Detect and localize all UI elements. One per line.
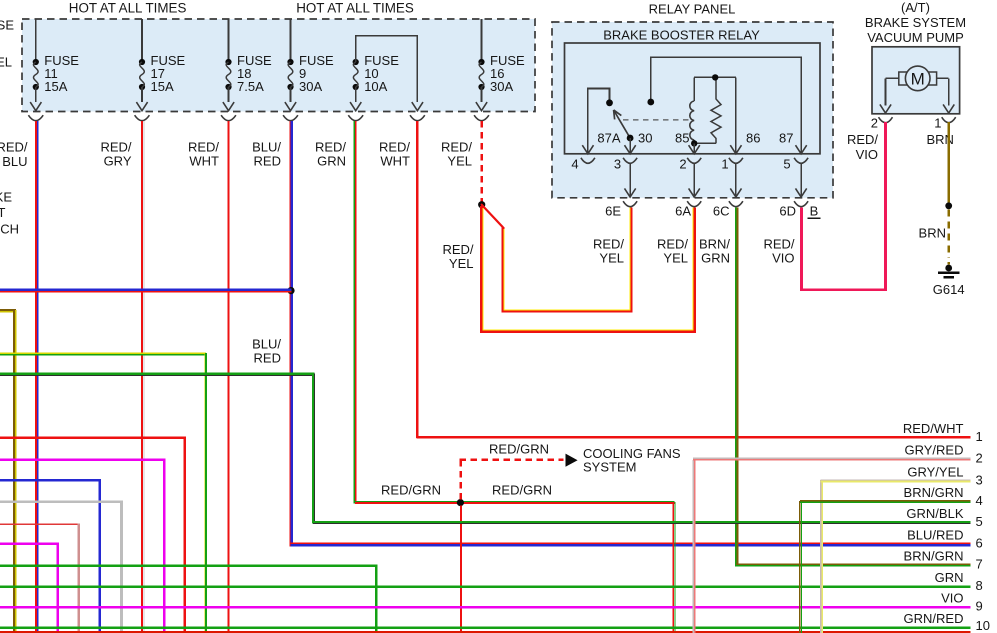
svg-text:30A: 30A — [299, 79, 322, 94]
svg-text:2: 2 — [976, 451, 983, 466]
svg-text:VIO: VIO — [856, 147, 878, 162]
svg-text:WHT: WHT — [189, 154, 219, 169]
svg-text:RED/WHT: RED/WHT — [903, 421, 964, 436]
svg-text:B: B — [810, 204, 819, 219]
svg-text:BLU/: BLU/ — [252, 337, 281, 352]
svg-text:4: 4 — [571, 157, 578, 172]
svg-text:GRN: GRN — [317, 154, 346, 169]
svg-text:G614: G614 — [933, 282, 965, 297]
svg-text:3: 3 — [614, 157, 621, 172]
svg-text:3: 3 — [976, 472, 983, 487]
svg-text:GRY: GRY — [104, 154, 132, 169]
svg-text:RED/: RED/ — [379, 139, 410, 154]
svg-text:GRY/RED: GRY/RED — [905, 443, 964, 458]
svg-text:5: 5 — [976, 514, 983, 529]
svg-text:BLU/: BLU/ — [252, 139, 281, 154]
svg-text:RELAY PANEL: RELAY PANEL — [649, 2, 736, 17]
svg-text:7.5A: 7.5A — [237, 79, 264, 94]
svg-text:86: 86 — [746, 131, 760, 146]
svg-text:2: 2 — [871, 116, 878, 131]
svg-text:RED/: RED/ — [188, 139, 219, 154]
svg-text:VIO: VIO — [941, 591, 963, 606]
svg-text:EL: EL — [0, 55, 12, 70]
svg-text:5: 5 — [783, 157, 790, 172]
svg-text:KE: KE — [0, 190, 12, 205]
svg-text:6: 6 — [976, 536, 983, 551]
svg-text:CH: CH — [0, 222, 19, 237]
svg-text:WHT: WHT — [380, 154, 410, 169]
svg-text:GRN: GRN — [935, 570, 964, 585]
svg-text:GRN/RED: GRN/RED — [904, 611, 964, 626]
svg-text:9: 9 — [976, 599, 983, 614]
svg-text:RED/: RED/ — [0, 139, 28, 154]
svg-text:GRY/YEL: GRY/YEL — [907, 464, 963, 479]
svg-text:6E: 6E — [605, 204, 621, 219]
svg-text:BRN: BRN — [919, 226, 946, 241]
svg-text:10A: 10A — [364, 79, 387, 94]
svg-text:15A: 15A — [151, 79, 174, 94]
svg-text:RED/: RED/ — [593, 237, 624, 252]
svg-text:RED/GRN: RED/GRN — [381, 483, 441, 498]
svg-text:7: 7 — [976, 556, 983, 571]
svg-text:85: 85 — [675, 131, 689, 146]
svg-text:BRN/GRN: BRN/GRN — [904, 548, 964, 563]
svg-text:BRN/GRN: BRN/GRN — [904, 485, 964, 500]
svg-text:BLU/RED: BLU/RED — [907, 528, 963, 543]
svg-text:RED/GRN: RED/GRN — [489, 442, 549, 457]
svg-text:M: M — [911, 70, 925, 89]
svg-text:HOT AT ALL TIMES: HOT AT ALL TIMES — [296, 1, 414, 16]
svg-text:YEL: YEL — [663, 251, 688, 266]
svg-text:15A: 15A — [44, 79, 67, 94]
svg-text:GRN: GRN — [701, 251, 730, 266]
svg-text:RED/: RED/ — [657, 237, 688, 252]
svg-text:RED/: RED/ — [847, 132, 878, 147]
svg-text:6A: 6A — [675, 204, 691, 219]
svg-text:10: 10 — [976, 618, 990, 633]
svg-text:87: 87 — [779, 131, 793, 146]
svg-text:1: 1 — [934, 116, 941, 131]
svg-text:6C: 6C — [713, 204, 730, 219]
svg-text:1: 1 — [721, 157, 728, 172]
svg-text:BRAKE SYSTEM: BRAKE SYSTEM — [865, 15, 966, 30]
svg-text:YEL: YEL — [449, 256, 474, 271]
svg-text:30A: 30A — [490, 79, 513, 94]
svg-text:87A: 87A — [597, 131, 620, 146]
svg-text:RED/GRN: RED/GRN — [492, 483, 552, 498]
svg-text:RED: RED — [254, 351, 281, 366]
svg-text:BLU: BLU — [2, 154, 27, 169]
svg-text:YEL: YEL — [599, 251, 624, 266]
svg-text:(A/T): (A/T) — [901, 0, 930, 15]
svg-text:6D: 6D — [779, 204, 796, 219]
svg-text:VIO: VIO — [772, 251, 794, 266]
svg-text:T: T — [0, 205, 6, 220]
svg-text:RED/: RED/ — [763, 237, 794, 252]
svg-text:1: 1 — [976, 429, 983, 444]
svg-text:RED/: RED/ — [441, 139, 472, 154]
svg-text:BRN/: BRN/ — [699, 237, 730, 252]
svg-text:RED/: RED/ — [315, 139, 346, 154]
svg-text:BRAKE BOOSTER RELAY: BRAKE BOOSTER RELAY — [603, 28, 760, 43]
svg-text:VACUUM PUMP: VACUUM PUMP — [867, 30, 964, 45]
svg-text:SYSTEM: SYSTEM — [583, 460, 636, 475]
svg-text:RED/: RED/ — [100, 139, 131, 154]
svg-text:4: 4 — [976, 493, 983, 508]
svg-text:2: 2 — [679, 157, 686, 172]
svg-text:RED/: RED/ — [442, 242, 473, 257]
svg-text:8: 8 — [976, 578, 983, 593]
svg-text:YEL: YEL — [447, 154, 472, 169]
svg-text:SE: SE — [0, 18, 14, 33]
svg-text:30: 30 — [638, 131, 652, 146]
svg-text:RED: RED — [254, 154, 281, 169]
svg-text:GRN/BLK: GRN/BLK — [906, 506, 963, 521]
svg-text:HOT AT ALL TIMES: HOT AT ALL TIMES — [69, 1, 187, 16]
